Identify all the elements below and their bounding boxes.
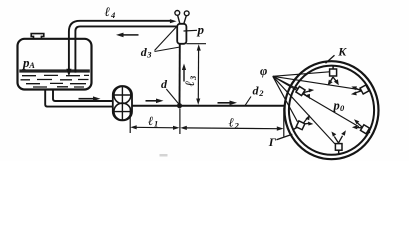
svg-text:ℓ: ℓ xyxy=(229,116,234,130)
label l3 (rotated) xyxy=(182,75,198,87)
return pipe l4 upper line with arrow into valve xyxy=(69,21,171,71)
label pA xyxy=(22,55,35,70)
svg-text:Г: Г xyxy=(268,135,277,149)
label d3 xyxy=(141,45,152,60)
return pipe l4 inner line xyxy=(75,26,177,72)
svg-text:d: d xyxy=(161,77,168,91)
label p xyxy=(197,22,205,37)
liquid surface band xyxy=(19,69,90,72)
svg-text:2: 2 xyxy=(258,88,264,98)
chamber inner circle xyxy=(289,66,374,155)
label K xyxy=(337,45,347,59)
label l4 xyxy=(105,4,116,20)
valve left knob xyxy=(175,11,180,16)
dimension l3 reference line xyxy=(186,43,206,45)
label Gamma xyxy=(268,135,277,149)
down arrowhead into tank xyxy=(66,69,71,77)
svg-text:K: K xyxy=(337,45,347,59)
valve U (pressure regulator) xyxy=(177,24,186,44)
label l2 xyxy=(229,116,240,131)
faint print artifact xyxy=(160,154,168,157)
label l1 xyxy=(148,114,158,129)
pipe pump to chamber (pressure line) xyxy=(132,105,285,107)
nozzle 6 lower right xyxy=(352,119,370,134)
node d (junction) xyxy=(177,103,182,108)
leader fan from phi to nozzles xyxy=(273,72,361,144)
leader Gamma xyxy=(277,134,293,140)
svg-text:2: 2 xyxy=(234,120,240,130)
nozzle 5 bottom xyxy=(331,130,346,154)
liquid hatch dashes xyxy=(21,75,90,87)
dimension line l1 l2 xyxy=(130,108,284,137)
svg-text:3: 3 xyxy=(188,75,198,81)
valve right knob xyxy=(184,11,189,16)
flow arrow toward tank xyxy=(116,33,139,38)
valve right stem xyxy=(184,16,187,24)
pipe tank bottom to pump (suction line) xyxy=(45,90,113,107)
svg-text:1: 1 xyxy=(154,119,158,129)
label phi xyxy=(260,64,267,78)
tank T xyxy=(18,39,92,90)
svg-text:ℓ: ℓ xyxy=(105,4,111,19)
flow arrow junction to chamber xyxy=(218,101,238,106)
leader p xyxy=(184,29,198,32)
flow arrow pump to junction xyxy=(146,99,164,104)
tank filler cap xyxy=(31,34,44,40)
flow arrow tank to pump xyxy=(79,96,101,101)
label d xyxy=(161,77,168,91)
svg-text:0: 0 xyxy=(340,103,345,113)
pump P (gear pump symbol) xyxy=(113,86,132,120)
leader d3 upper xyxy=(155,26,178,50)
riser pipe junction to valve xyxy=(179,44,181,106)
svg-text:p: p xyxy=(197,22,205,37)
arrowhead into valve xyxy=(170,19,177,23)
nozzle 2 upper right xyxy=(351,85,369,95)
svg-text:ℓ: ℓ xyxy=(182,81,197,87)
svg-text:p: p xyxy=(333,99,340,113)
nozzle 3 upper left xyxy=(296,86,315,99)
chamber outer circle xyxy=(285,61,379,159)
label p0 xyxy=(333,99,346,114)
svg-text:ℓ: ℓ xyxy=(148,114,153,128)
svg-text:φ: φ xyxy=(260,64,267,78)
leader d3 lower xyxy=(155,47,181,52)
leader K xyxy=(326,55,335,63)
leader d2 xyxy=(245,97,251,106)
nozzle 4 lower left xyxy=(293,115,314,130)
suction pipe inner line xyxy=(53,90,113,102)
dimension l3 line with arrows xyxy=(196,44,201,105)
svg-text:3: 3 xyxy=(146,49,152,59)
leader d xyxy=(166,89,179,104)
svg-text:4: 4 xyxy=(110,10,115,20)
valve left stem xyxy=(178,15,180,24)
svg-text:A: A xyxy=(28,60,35,70)
nozzle 1 top xyxy=(328,66,339,86)
riser flow arrow up xyxy=(182,64,186,82)
label d2 xyxy=(253,84,265,98)
